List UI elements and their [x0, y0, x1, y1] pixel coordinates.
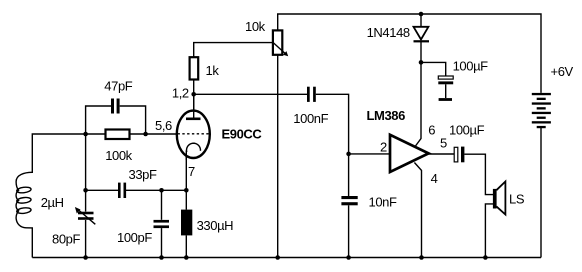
- svg-text:100nF: 100nF: [293, 111, 328, 126]
- svg-text:LS: LS: [509, 192, 525, 207]
- svg-text:5: 5: [440, 136, 447, 151]
- svg-text:10k: 10k: [245, 19, 266, 34]
- svg-text:4: 4: [431, 171, 438, 186]
- svg-text:1k: 1k: [206, 63, 220, 78]
- svg-text:5,6: 5,6: [155, 118, 172, 133]
- svg-text:2: 2: [380, 140, 387, 155]
- svg-text:80pF: 80pF: [52, 231, 80, 246]
- svg-text:10nF: 10nF: [369, 195, 397, 210]
- svg-text:+6V: +6V: [551, 64, 574, 79]
- svg-text:2µH: 2µH: [41, 195, 64, 210]
- svg-text:7: 7: [188, 164, 195, 179]
- svg-text:100pF: 100pF: [117, 230, 152, 245]
- svg-text:LM386: LM386: [367, 108, 406, 123]
- svg-text:100µF: 100µF: [449, 123, 485, 138]
- svg-text:100µF: 100µF: [453, 59, 489, 74]
- svg-text:33pF: 33pF: [129, 167, 157, 182]
- svg-text:1N4148: 1N4148: [367, 25, 410, 40]
- svg-text:330µH: 330µH: [197, 218, 234, 233]
- svg-text:100k: 100k: [105, 148, 132, 163]
- svg-text:6: 6: [428, 123, 435, 138]
- svg-text:1,2: 1,2: [172, 86, 189, 101]
- svg-text:47pF: 47pF: [104, 79, 132, 94]
- svg-text:E90CC: E90CC: [222, 127, 263, 142]
